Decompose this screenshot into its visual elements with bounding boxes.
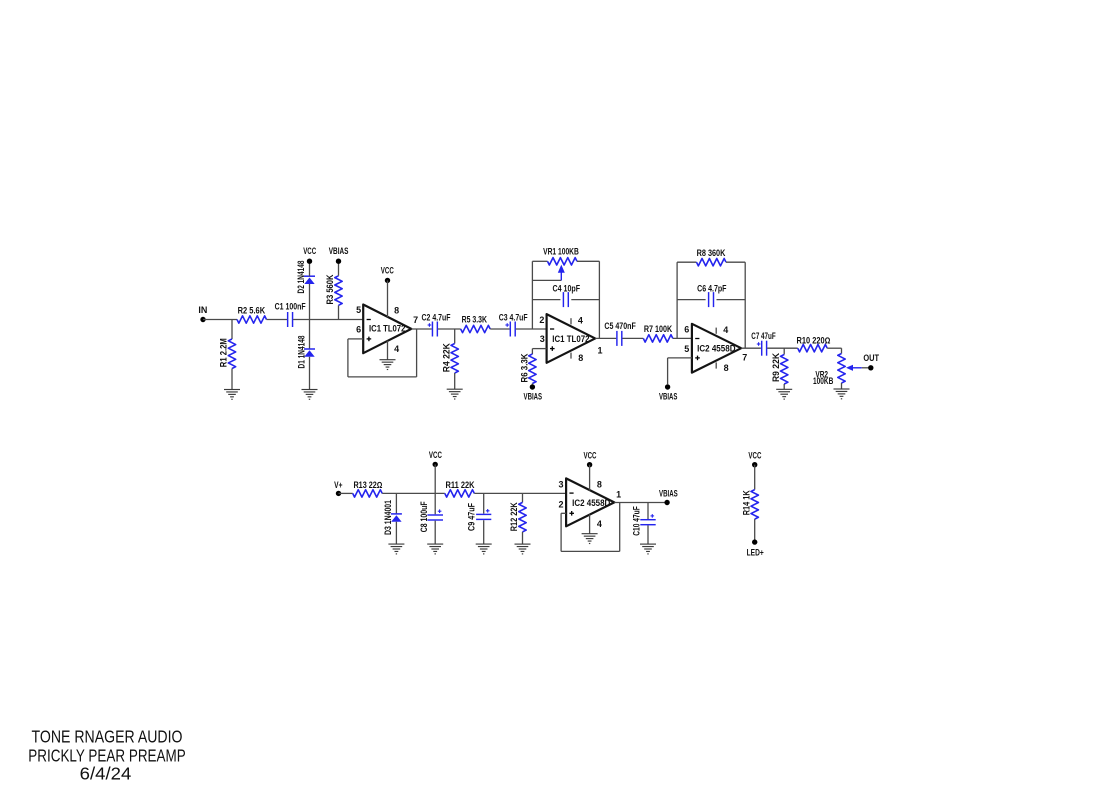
svg-text:6/4/24: 6/4/24 [80, 764, 132, 784]
svg-text:R8 360K: R8 360K [697, 248, 726, 258]
svg-text:R10 220Ω: R10 220Ω [797, 336, 831, 346]
svg-text:VCC: VCC [303, 246, 316, 256]
svg-text:VBIAS: VBIAS [329, 246, 349, 256]
svg-text:OUT: OUT [863, 353, 879, 363]
svg-text:5: 5 [356, 305, 361, 315]
svg-text:100KB: 100KB [813, 376, 833, 386]
svg-text:IN: IN [198, 305, 207, 315]
svg-text:4: 4 [578, 316, 583, 326]
svg-text:7: 7 [413, 315, 418, 325]
svg-text:R1 2.2M: R1 2.2M [219, 338, 229, 367]
svg-text:C2 4.7uF: C2 4.7uF [422, 313, 451, 323]
svg-text:R14 1K: R14 1K [741, 490, 751, 516]
svg-text:5: 5 [684, 344, 689, 354]
svg-text:VBIAS: VBIAS [524, 391, 543, 401]
svg-text:4: 4 [723, 325, 728, 335]
svg-text:VCC: VCC [748, 451, 761, 461]
svg-text:IC2 4558D: IC2 4558D [572, 498, 610, 508]
svg-text:IC2 4558D: IC2 4558D [697, 343, 735, 353]
svg-text:R6 3.3K: R6 3.3K [519, 353, 529, 383]
svg-text:C3 4.7uF: C3 4.7uF [499, 313, 528, 323]
svg-text:LED+: LED+ [747, 547, 764, 557]
svg-text:C8 100uF: C8 100uF [419, 501, 429, 532]
svg-text:R4 22K: R4 22K [442, 343, 452, 373]
svg-text:C7 47uF: C7 47uF [751, 331, 776, 341]
svg-text:6: 6 [684, 325, 689, 335]
svg-text:8: 8 [597, 479, 602, 489]
svg-text:C5 470nF: C5 470nF [604, 321, 636, 331]
svg-text:8: 8 [394, 305, 399, 315]
svg-text:R5 3.3K: R5 3.3K [462, 315, 488, 325]
svg-text:VR1 100KB: VR1 100KB [543, 246, 579, 256]
svg-text:VBIAS: VBIAS [659, 392, 677, 402]
svg-text:2: 2 [558, 500, 563, 510]
svg-text:VCC: VCC [429, 450, 442, 460]
svg-text:TONE RNAGER AUDIO: TONE RNAGER AUDIO [32, 727, 183, 747]
svg-text:D3 1N4001: D3 1N4001 [383, 500, 393, 535]
svg-text:2: 2 [539, 315, 544, 325]
svg-text:VCC: VCC [584, 451, 597, 461]
svg-text:VCC: VCC [381, 265, 394, 275]
svg-text:PRICKLY PEAR PREAMP: PRICKLY PEAR PREAMP [28, 746, 186, 766]
svg-text:R9 22K: R9 22K [771, 352, 781, 382]
svg-text:1: 1 [616, 490, 621, 500]
svg-text:C4 10pF: C4 10pF [553, 283, 581, 293]
svg-text:R11 22K: R11 22K [446, 480, 475, 490]
svg-text:D1 1N4148: D1 1N4148 [296, 335, 306, 368]
svg-text:IC1 TL072: IC1 TL072 [369, 324, 405, 334]
svg-text:R13 22Ω: R13 22Ω [353, 480, 382, 490]
svg-text:V+: V+ [334, 480, 342, 490]
svg-text:1: 1 [597, 345, 602, 355]
svg-text:R2 5.6K: R2 5.6K [238, 306, 266, 316]
svg-text:R12 22K: R12 22K [509, 502, 519, 532]
svg-text:D2 1N4148: D2 1N4148 [296, 260, 306, 293]
svg-text:R7 100K: R7 100K [644, 324, 673, 334]
svg-text:VBIAS: VBIAS [659, 489, 678, 499]
svg-text:R3 560K: R3 560K [325, 274, 335, 305]
svg-text:4: 4 [597, 519, 602, 529]
svg-text:8: 8 [724, 363, 729, 373]
svg-text:8: 8 [578, 353, 583, 363]
svg-text:C10 47uF: C10 47uF [632, 506, 642, 536]
svg-text:C9 47uF: C9 47uF [467, 502, 477, 531]
svg-text:C6 4.7pF: C6 4.7pF [697, 283, 727, 293]
svg-text:IC1 TL072: IC1 TL072 [552, 334, 589, 344]
svg-text:6: 6 [356, 325, 361, 335]
svg-text:7: 7 [742, 353, 747, 363]
svg-text:4: 4 [394, 344, 399, 354]
svg-text:3: 3 [540, 334, 545, 344]
svg-text:C1 100nF: C1 100nF [275, 302, 306, 312]
svg-text:3: 3 [558, 479, 563, 489]
